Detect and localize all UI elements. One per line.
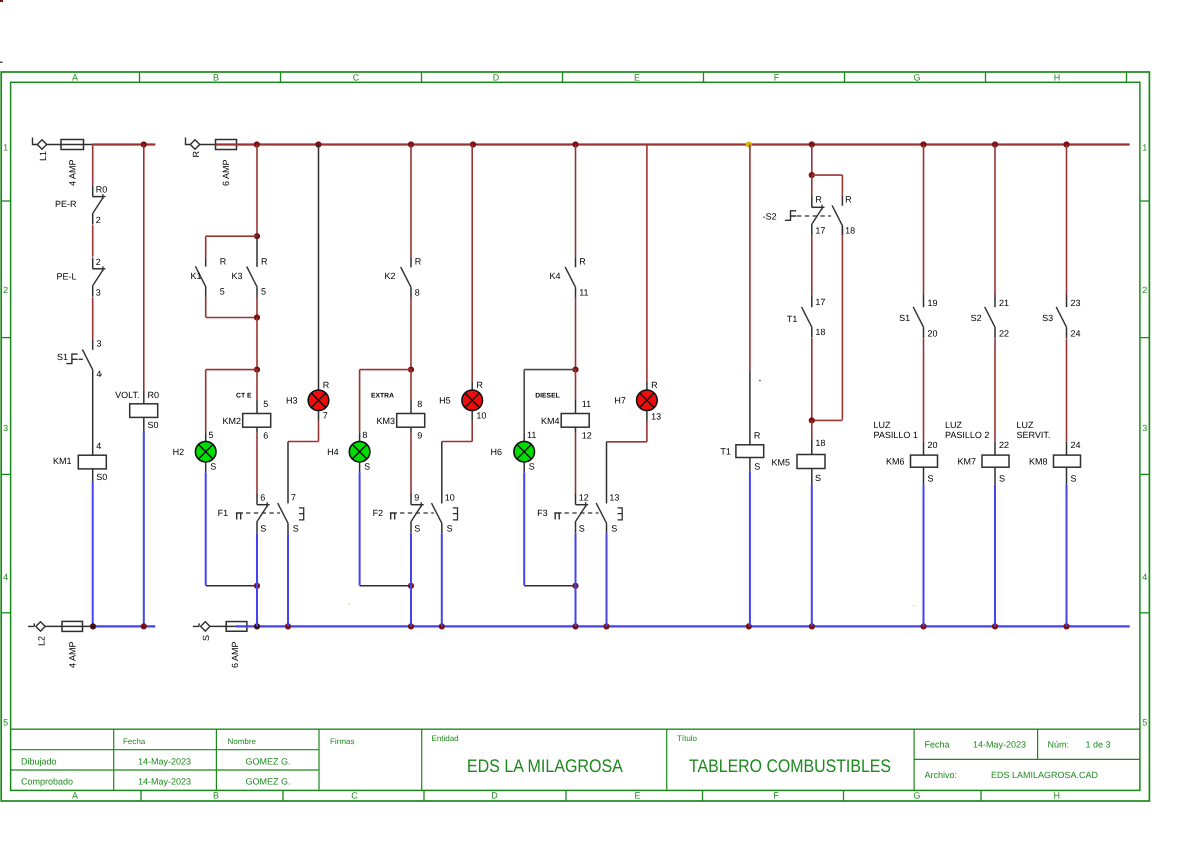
timer contact T1 (NO) xyxy=(787,296,826,337)
node bus KM8 xyxy=(1063,623,1069,629)
svg-text:Núm:: Núm: xyxy=(1048,739,1070,749)
node H2 join xyxy=(254,583,260,589)
svg-text:KM4: KM4 xyxy=(541,416,560,426)
wire rail to -S2 xyxy=(811,145,813,176)
svg-text:GOMEZ G.: GOMEZ G. xyxy=(246,756,291,766)
svg-text:H: H xyxy=(1054,73,1061,83)
selector switch -S2 (NO side) xyxy=(832,195,855,236)
wire rail to switch S2 xyxy=(994,145,996,295)
svg-text:R: R xyxy=(845,195,852,205)
wire H7 drop xyxy=(647,145,658,391)
svg-text:E: E xyxy=(634,790,640,800)
overload aux contact F1 (NO) xyxy=(278,503,299,533)
wire K1 branch bottom xyxy=(206,297,257,318)
svg-text:14-May-2023: 14-May-2023 xyxy=(138,756,191,766)
svg-text:4: 4 xyxy=(3,572,8,582)
svg-text:R0: R0 xyxy=(96,185,108,195)
svg-text:6: 6 xyxy=(260,493,265,503)
svg-text:11: 11 xyxy=(579,288,588,298)
svg-text:S: S xyxy=(815,473,821,483)
svg-text:5: 5 xyxy=(261,287,266,297)
svg-text:9: 9 xyxy=(417,431,422,441)
svg-text:13: 13 xyxy=(651,412,661,422)
svg-text:E: E xyxy=(634,73,640,83)
node H4 branch xyxy=(408,367,414,373)
node H4 join xyxy=(408,583,414,589)
contact K4 xyxy=(549,256,588,297)
wire F3 to bus xyxy=(575,533,577,627)
svg-text:S: S xyxy=(293,524,299,534)
wire H6 to node xyxy=(524,462,575,586)
lamp H3 (red) xyxy=(286,390,329,420)
svg-text:20: 20 xyxy=(928,328,938,338)
svg-text:7: 7 xyxy=(291,493,296,503)
svg-text:EXTRA: EXTRA xyxy=(371,392,394,399)
svg-text:14-May-2023: 14-May-2023 xyxy=(138,777,191,787)
svg-text:KM2: KM2 xyxy=(222,416,241,426)
svg-text:K4: K4 xyxy=(549,271,560,281)
plot artifacts xyxy=(0,0,915,607)
svg-text:S1: S1 xyxy=(899,313,910,323)
svg-text:14-May-2023: 14-May-2023 xyxy=(973,739,1026,749)
svg-text:PE-R: PE-R xyxy=(55,199,77,209)
wire KM4 to F3 xyxy=(575,433,577,494)
node bus T1 xyxy=(746,623,752,629)
svg-text:11: 11 xyxy=(527,430,536,440)
wire K2 to node xyxy=(410,297,412,370)
wire F2 to bus xyxy=(410,533,412,627)
svg-text:S: S xyxy=(611,524,617,534)
svg-text:C: C xyxy=(351,790,358,800)
svg-text:6: 6 xyxy=(263,431,268,441)
svg-text:Fecha: Fecha xyxy=(123,737,146,746)
wire node to KM3 xyxy=(411,370,422,414)
wire S2 to KM7 xyxy=(995,339,1009,456)
svg-text:K1: K1 xyxy=(190,271,201,281)
NC contact PE-L xyxy=(56,257,105,297)
svg-text:R: R xyxy=(815,195,822,205)
svg-text:R: R xyxy=(651,380,658,390)
coil KM5 xyxy=(771,455,825,485)
node K-parallel top xyxy=(254,233,260,239)
svg-text:S: S xyxy=(1071,473,1077,483)
svg-text:CT E: CT E xyxy=(236,392,252,399)
svg-text:KM7: KM7 xyxy=(957,457,976,467)
svg-text:8: 8 xyxy=(362,430,367,440)
svg-text:PASILLO 2: PASILLO 2 xyxy=(945,430,989,440)
wire KM8 to bus xyxy=(1066,485,1068,627)
node bus F3 right xyxy=(603,623,609,629)
wire S3 to KM8 xyxy=(1067,339,1081,456)
svg-text:R0: R0 xyxy=(148,390,160,400)
wire node 4 xyxy=(92,370,94,455)
coil KM7 xyxy=(957,455,1009,485)
wire KM2 to F1 xyxy=(256,433,258,494)
wire rail to switch S3 xyxy=(1066,145,1068,295)
svg-text:22: 22 xyxy=(999,440,1009,450)
terminal L1 xyxy=(33,138,48,162)
contact K1 xyxy=(190,256,226,297)
label LUZ PASILLO 2 xyxy=(945,420,989,440)
wire H4 branch xyxy=(360,370,411,442)
wire KM1 to L2 bus xyxy=(92,482,94,627)
node bus F2 right xyxy=(439,623,445,629)
svg-text:8: 8 xyxy=(415,288,420,298)
svg-text:L1: L1 xyxy=(38,151,48,161)
svg-text:19: 19 xyxy=(928,298,938,308)
coil KM6 xyxy=(886,455,938,485)
svg-text:B: B xyxy=(213,790,219,800)
svg-text:12: 12 xyxy=(579,493,589,503)
lamp H5 (red) xyxy=(439,390,486,420)
svg-text:H: H xyxy=(1053,790,1060,800)
svg-text:H7: H7 xyxy=(614,396,626,406)
fuse 4 AMP (L2) xyxy=(62,621,83,668)
svg-text:5: 5 xyxy=(1142,717,1147,727)
switch S1 xyxy=(899,295,937,339)
wire L1 to fuse xyxy=(47,144,93,146)
wire L2 bus xyxy=(93,625,155,627)
svg-text:24: 24 xyxy=(1071,328,1081,338)
svg-text:H2: H2 xyxy=(173,447,185,457)
svg-text:-S2: -S2 xyxy=(763,211,777,221)
wire H2 to node xyxy=(206,462,257,586)
svg-text:2: 2 xyxy=(3,285,8,295)
svg-text:1 de 3: 1 de 3 xyxy=(1085,739,1110,749)
svg-text:EDS LAMILAGROSA.CAD: EDS LAMILAGROSA.CAD xyxy=(991,770,1099,780)
label LUZ PASILLO 1 xyxy=(874,420,918,440)
svg-text:EDS LA MILAGROSA: EDS LA MILAGROSA xyxy=(467,756,624,776)
fuse 6 AMP (S) xyxy=(226,622,247,668)
node bus KM6 xyxy=(920,623,926,629)
svg-text:Archivo:: Archivo: xyxy=(925,770,958,780)
svg-text:S: S xyxy=(364,462,370,472)
coil KM3 xyxy=(376,414,424,441)
wire K3 to node xyxy=(256,297,258,318)
node bus KM5 xyxy=(809,623,815,629)
svg-text:17: 17 xyxy=(815,297,825,307)
NC contact PE-R xyxy=(55,185,107,225)
terminal S xyxy=(193,622,211,641)
svg-text:S: S xyxy=(210,462,216,472)
wire rail to K-parallel xyxy=(256,145,258,237)
svg-text:4: 4 xyxy=(1142,572,1147,582)
svg-text:R: R xyxy=(415,256,422,266)
wire -S2 NC to T1 contact xyxy=(811,235,813,296)
svg-text:D: D xyxy=(493,73,500,83)
svg-text:C: C xyxy=(353,73,360,83)
overload contact F1 (NC) xyxy=(218,493,304,534)
svg-text:R: R xyxy=(220,256,227,266)
svg-text:S0: S0 xyxy=(96,472,107,482)
svg-text:6 AMP: 6 AMP xyxy=(221,159,231,186)
wire node 5 xyxy=(256,318,258,370)
node L1/volt branch xyxy=(141,141,147,147)
wire node R0 xyxy=(92,145,94,186)
switch S1 (column A) xyxy=(57,339,102,380)
svg-text:11: 11 xyxy=(582,399,591,409)
svg-text:4 AMP: 4 AMP xyxy=(68,641,78,668)
node rail S2 select xyxy=(809,141,815,147)
svg-text:13: 13 xyxy=(609,493,619,503)
node H6 join xyxy=(572,583,578,589)
wire KM7 to bus xyxy=(994,485,996,627)
coil KM4 xyxy=(541,414,592,441)
svg-text:2: 2 xyxy=(1142,285,1147,295)
wire node 2 xyxy=(92,225,94,257)
svg-text:5: 5 xyxy=(3,717,8,727)
lamp H2 (green) xyxy=(173,441,217,471)
svg-text:T1: T1 xyxy=(720,447,731,457)
terminal R xyxy=(186,138,201,158)
svg-text:R: R xyxy=(261,256,268,266)
svg-text:F: F xyxy=(774,73,780,83)
svg-text:18: 18 xyxy=(815,327,825,337)
node bus group1 xyxy=(254,623,260,629)
svg-text:S1: S1 xyxy=(57,352,68,362)
svg-text:Fecha: Fecha xyxy=(925,739,950,749)
timer coil T1 xyxy=(720,445,763,472)
wire R rail (top bus) xyxy=(216,143,1130,145)
svg-text:D: D xyxy=(491,790,498,800)
svg-text:4: 4 xyxy=(96,369,101,379)
contact K3 xyxy=(231,236,268,297)
wire F1 aux to bus xyxy=(287,533,289,626)
node H2 branch xyxy=(254,367,260,373)
svg-text:TABLERO COMBUSTIBLES: TABLERO COMBUSTIBLES xyxy=(689,756,891,776)
svg-text:3: 3 xyxy=(97,339,102,349)
svg-text:R: R xyxy=(579,256,586,266)
svg-text:G: G xyxy=(913,790,920,800)
node rail S2 xyxy=(992,141,998,147)
contact K2 xyxy=(384,256,421,297)
svg-text:1: 1 xyxy=(3,143,8,153)
svg-text:LUZ: LUZ xyxy=(1017,420,1035,430)
wire K1 branch top xyxy=(206,236,257,258)
svg-text:Firmas: Firmas xyxy=(330,737,354,746)
svg-text:22: 22 xyxy=(999,328,1009,338)
wire L1 rail xyxy=(92,143,155,145)
svg-text:R: R xyxy=(323,380,330,390)
svg-text:R: R xyxy=(476,380,483,390)
svg-text:B: B xyxy=(213,73,219,83)
selector switch -S2 (NC side) xyxy=(763,175,831,236)
wire F2 aux to bus xyxy=(441,533,443,626)
switch S2 xyxy=(971,295,1009,339)
node rail S1 xyxy=(920,141,926,147)
wire H5 drop xyxy=(472,145,483,391)
svg-text:S: S xyxy=(754,461,760,471)
svg-text:H3: H3 xyxy=(286,396,298,406)
voltmeter VOLT xyxy=(115,390,159,431)
coil KM8 xyxy=(1029,455,1081,485)
node -S2 split xyxy=(809,172,815,178)
overload aux contact F3 (NO) xyxy=(596,503,617,533)
lamp H4 (green) xyxy=(327,441,370,471)
svg-text:L2: L2 xyxy=(36,636,46,646)
node bus KM7 xyxy=(992,623,998,629)
svg-text:G: G xyxy=(913,73,920,83)
svg-text:17: 17 xyxy=(815,226,825,236)
wire H3 drop xyxy=(319,145,330,391)
svg-text:3: 3 xyxy=(96,287,101,297)
node K-parallel bottom xyxy=(254,314,260,320)
wire -S2 right branch bottom xyxy=(812,226,843,420)
svg-text:20: 20 xyxy=(928,440,938,450)
wire T1 to bus xyxy=(749,472,751,627)
svg-text:A: A xyxy=(72,790,78,800)
node rail T1 (yellow) xyxy=(746,142,752,148)
svg-text:PE-L: PE-L xyxy=(56,272,76,282)
node rail H5 xyxy=(470,141,476,147)
wire KM6 to bus xyxy=(923,485,925,627)
svg-text:4 AMP: 4 AMP xyxy=(67,159,77,186)
wire rail to switch S1 xyxy=(923,145,925,295)
svg-text:R: R xyxy=(191,151,201,158)
wire S bus (bottom) xyxy=(236,625,1130,627)
node rail group2 xyxy=(408,141,414,147)
terminal L2 xyxy=(28,622,46,646)
node L2 volt xyxy=(141,623,147,629)
svg-text:2: 2 xyxy=(96,257,101,267)
svg-text:5: 5 xyxy=(209,430,214,440)
svg-text:6 AMP: 6 AMP xyxy=(230,641,240,668)
svg-text:LUZ: LUZ xyxy=(874,420,892,430)
svg-text:H6: H6 xyxy=(490,447,502,457)
svg-text:R: R xyxy=(754,430,761,440)
wire node 3 xyxy=(92,297,94,340)
wire T1 contact to node xyxy=(811,337,813,420)
svg-text:H5: H5 xyxy=(439,396,451,406)
svg-text:H4: H4 xyxy=(327,447,339,457)
svg-text:T1: T1 xyxy=(787,314,798,324)
svg-text:S: S xyxy=(260,524,266,534)
wire H3 to F1 right xyxy=(288,411,319,504)
svg-text:3: 3 xyxy=(1142,423,1147,433)
wire K4 to node xyxy=(575,297,577,370)
svg-text:F3: F3 xyxy=(537,508,548,518)
svg-text:18: 18 xyxy=(845,226,855,236)
title block xyxy=(11,729,1140,790)
svg-text:Dibujado: Dibujado xyxy=(21,756,57,766)
wire volt branch xyxy=(143,145,145,404)
svg-text:9: 9 xyxy=(414,493,419,503)
overload aux contact F2 (NO) xyxy=(432,503,453,533)
node L2 fuse xyxy=(90,623,96,629)
svg-text:24: 24 xyxy=(1071,440,1081,450)
svg-text:F1: F1 xyxy=(218,508,229,518)
node H6 branch xyxy=(572,367,578,373)
svg-text:Nombre: Nombre xyxy=(228,737,257,746)
svg-text:S2: S2 xyxy=(971,313,982,323)
label CT E xyxy=(236,392,252,399)
svg-text:21: 21 xyxy=(999,298,1009,308)
svg-text:10: 10 xyxy=(445,493,455,503)
wire R to fuse xyxy=(200,144,216,146)
node bus F1 right xyxy=(285,623,291,629)
svg-text:F2: F2 xyxy=(373,508,384,518)
svg-text:F: F xyxy=(773,790,779,800)
label DIESEL xyxy=(535,392,560,399)
svg-text:Comprobado: Comprobado xyxy=(21,777,73,787)
svg-text:3: 3 xyxy=(3,423,8,433)
wire L2 to fuse xyxy=(45,625,93,627)
svg-text:KM8: KM8 xyxy=(1029,457,1048,467)
wire -S2 right branch top xyxy=(812,175,843,196)
wire rail to T1 coil xyxy=(750,145,761,445)
svg-text:10: 10 xyxy=(476,410,486,420)
wire F1 to bus xyxy=(256,533,258,627)
svg-text:S: S xyxy=(529,462,535,472)
wire H2 branch xyxy=(206,370,257,442)
node rail S3 xyxy=(1063,141,1069,147)
wire rail to K2 xyxy=(410,145,412,258)
svg-text:S: S xyxy=(928,473,934,483)
svg-text:7: 7 xyxy=(323,410,328,420)
svg-text:5: 5 xyxy=(220,287,225,297)
wire H6 branch xyxy=(524,370,575,442)
wire S to fuse xyxy=(210,625,236,627)
coil KM1 xyxy=(53,441,107,482)
fuse 6 AMP (R) xyxy=(216,140,237,187)
svg-text:S: S xyxy=(414,524,420,534)
svg-text:K2: K2 xyxy=(384,271,395,281)
svg-text:18: 18 xyxy=(815,438,825,448)
svg-text:KM5: KM5 xyxy=(771,457,790,467)
wire node to KM2 xyxy=(257,370,268,414)
svg-text:Título: Título xyxy=(677,734,698,743)
switch S3 xyxy=(1042,295,1080,339)
svg-text:GOMEZ G.: GOMEZ G. xyxy=(246,777,291,787)
wire node to KM4 xyxy=(576,370,592,414)
svg-text:KM1: KM1 xyxy=(53,456,72,466)
wire H5 to F2 right xyxy=(442,411,472,504)
svg-text:SERVIT.: SERVIT. xyxy=(1017,430,1051,440)
svg-text:KM3: KM3 xyxy=(376,416,395,426)
svg-text:VOLT.: VOLT. xyxy=(115,390,139,400)
wire volt to L2 bus xyxy=(143,431,145,626)
svg-text:K3: K3 xyxy=(231,271,242,281)
node rail group3 xyxy=(572,141,578,147)
wire S1 to KM6 xyxy=(924,339,938,456)
wire rail to K4 xyxy=(575,145,577,258)
wire KM3 to F2 xyxy=(410,433,412,494)
wire H4 to node xyxy=(360,462,411,586)
svg-text:A: A xyxy=(72,73,78,83)
lamp H7 (red) xyxy=(614,390,661,422)
lamp H6 (green) xyxy=(490,441,534,471)
svg-text:S: S xyxy=(579,524,585,534)
svg-text:LUZ: LUZ xyxy=(945,420,963,430)
svg-text:S: S xyxy=(447,524,453,534)
svg-text:5: 5 xyxy=(263,399,268,409)
svg-text:PASILLO 1: PASILLO 1 xyxy=(874,430,918,440)
node KM5 top xyxy=(809,417,815,423)
svg-text:S0: S0 xyxy=(148,420,159,430)
svg-text:DIESEL: DIESEL xyxy=(535,392,560,399)
node bus group3 xyxy=(572,623,578,629)
label LUZ SERVIT. xyxy=(1017,420,1051,440)
svg-text:KM6: KM6 xyxy=(886,457,905,467)
overload contact F2 (NC) xyxy=(373,493,458,534)
svg-text:1: 1 xyxy=(1142,143,1147,153)
wire F3 aux to bus xyxy=(606,533,608,626)
svg-text:S: S xyxy=(999,473,1005,483)
wire KM5 to bus xyxy=(811,485,813,627)
node rail K-group1 xyxy=(254,141,260,147)
svg-text:S: S xyxy=(201,635,211,641)
coil KM2 xyxy=(222,414,270,441)
